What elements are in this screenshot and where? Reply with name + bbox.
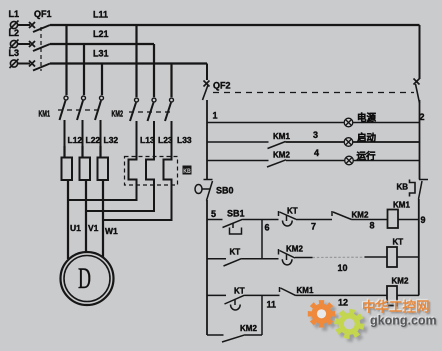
timed contact KT (row5, delay close) <box>279 211 297 226</box>
svg-text:SB1: SB1 <box>227 209 245 219</box>
timed contact KM2 (rowA, with delay hook) <box>279 249 296 265</box>
rowA wire segment b <box>242 258 279 260</box>
rowB wire segment a <box>207 294 226 296</box>
wire into reactor 3 <box>99 146 101 158</box>
svg-text:KT: KT <box>287 207 298 216</box>
svg-text:6: 6 <box>265 223 270 233</box>
contactor KM2 contact 3 <box>165 98 174 157</box>
wire into reactor 2 <box>81 146 83 158</box>
wire into reactor 1 <box>63 146 65 158</box>
contactor KM1 contact 3 <box>95 96 104 146</box>
row2 wire start-lamp <box>207 141 269 143</box>
svg-text:SB0: SB0 <box>216 186 234 196</box>
contact KM1 (rowB, NC) <box>280 287 296 295</box>
lamp HL3 <box>345 156 354 165</box>
rowB wire segment d <box>397 294 419 296</box>
svg-text:L3: L3 <box>9 48 20 58</box>
contactor KM2 contact 2 <box>148 98 157 157</box>
svg-text:KT: KT <box>393 238 404 247</box>
thermal relay KB heater 2 <box>86 157 154 211</box>
svg-text:KB: KB <box>183 168 191 175</box>
row5 wire segment d <box>352 219 388 221</box>
breaker QF1 pole 1 <box>29 22 50 32</box>
svg-text:W1: W1 <box>105 226 118 236</box>
svg-text:KM2: KM2 <box>273 151 290 160</box>
gear green <box>334 309 364 339</box>
contact KM1 (row2, NO) <box>268 142 286 149</box>
row5 wire segment e <box>398 219 420 221</box>
QF2 linkage dashed <box>213 92 414 94</box>
svg-text:L31: L31 <box>93 49 109 59</box>
svg-text:KM2: KM2 <box>352 211 369 220</box>
rowB wire segment c <box>296 294 388 296</box>
coil KM1 <box>388 210 399 229</box>
breaker QF1 pole 2 <box>29 41 50 51</box>
gear shadow green <box>337 312 367 342</box>
node6 vertical wire <box>261 220 263 259</box>
right control rail upper <box>419 100 421 180</box>
contact KT (rowA, NO) <box>224 259 242 266</box>
contact KM2 (row3, NO) <box>267 160 286 167</box>
wire drop L11 to KM2-1 <box>135 25 137 97</box>
svg-text:11: 11 <box>267 300 277 310</box>
left control rail lower <box>206 200 208 335</box>
contactor KM1 contact 1 <box>60 96 69 146</box>
reactor L32 body <box>98 158 109 181</box>
wire drop L21 to KM2-2 <box>153 44 155 97</box>
row5 wire segment b <box>243 219 279 221</box>
terminal L3 <box>10 59 31 68</box>
svg-text:电源: 电源 <box>357 112 377 124</box>
row5 wire segment c <box>296 219 332 221</box>
svg-text:L2: L2 <box>9 28 20 38</box>
rowA wire segment d <box>397 256 418 258</box>
wire reactor3 to motor W1 <box>102 180 104 258</box>
svg-text:10: 10 <box>338 263 348 273</box>
svg-text:L1: L1 <box>9 9 20 19</box>
row3 wire run-lamp <box>207 160 269 162</box>
svg-text:运行: 运行 <box>357 151 377 163</box>
wire L11 <box>50 24 420 26</box>
thermal relay KB heater 1 <box>68 157 137 200</box>
svg-text:KM2: KM2 <box>286 245 303 254</box>
bottom branch wire b <box>245 334 262 336</box>
svg-text:D: D <box>78 263 91 296</box>
svg-text:QF2: QF2 <box>213 81 231 91</box>
KM2 linkage dashed <box>129 111 173 113</box>
svg-text:KB: KB <box>397 183 409 192</box>
svg-text:启动: 启动 <box>357 132 377 144</box>
svg-text:L13: L13 <box>140 135 155 145</box>
node11 vertical wire <box>261 295 263 335</box>
rowB wire segment b <box>245 294 280 296</box>
wire drop L11 to KM1-1 <box>65 25 67 95</box>
wire drop L31 to KM2-3 <box>170 64 172 98</box>
svg-text:3: 3 <box>313 130 318 140</box>
wire L31 to QF2 <box>206 64 208 81</box>
right control rail lower <box>418 199 420 295</box>
svg-text:L33: L33 <box>177 135 192 145</box>
svg-text:中华工控网: 中华工控网 <box>362 299 430 315</box>
svg-text:KM2: KM2 <box>112 110 124 119</box>
svg-text:8: 8 <box>370 221 375 231</box>
QF1 linkage dashed <box>40 27 42 71</box>
svg-text:KM1: KM1 <box>39 110 51 119</box>
svg-text:7: 7 <box>311 222 316 232</box>
left control rail upper <box>206 100 208 180</box>
breaker QF2 left pole <box>203 81 210 101</box>
motor M outer circle <box>61 252 114 305</box>
svg-text:5: 5 <box>211 209 216 219</box>
terminal L2 <box>10 40 31 49</box>
row5 wire segment a <box>207 219 223 221</box>
contactor KM2 contact 1 <box>130 98 139 157</box>
lamp HL2 <box>344 138 353 147</box>
bottom branch wire <box>207 334 224 336</box>
svg-text:L32: L32 <box>104 135 119 145</box>
svg-text:QF1: QF1 <box>34 9 52 19</box>
thermal relay KB heater 3 <box>103 157 172 220</box>
svg-text:gkong.com: gkong.com <box>370 314 437 328</box>
svg-text:L11: L11 <box>93 10 108 20</box>
wire L31 <box>50 62 207 64</box>
wire drop L21 to KM1-2 <box>83 44 85 95</box>
svg-text:V1: V1 <box>88 223 99 233</box>
svg-text:KM2: KM2 <box>240 324 257 333</box>
motor M inner circle <box>64 256 110 302</box>
gear orange <box>308 300 335 327</box>
timed contact KT (rowB, NO with hook) <box>225 295 245 310</box>
thermal relay KB contact (NC on rail) <box>410 180 429 200</box>
rowA wire segment a <box>207 258 226 260</box>
breaker QF2 right pole <box>414 79 420 104</box>
svg-text:9: 9 <box>421 215 426 225</box>
wire L21 <box>50 43 154 45</box>
svg-text:12: 12 <box>338 298 348 308</box>
svg-text:L12: L12 <box>68 135 83 145</box>
svg-text:KM1: KM1 <box>273 132 290 141</box>
contactor KM1 contact 2 <box>77 96 86 146</box>
coil KM2 <box>387 286 397 306</box>
svg-text:KM2: KM2 <box>392 277 409 286</box>
pushbutton SB0 (NC stop) <box>195 180 213 201</box>
KM1 linkage dashed <box>58 109 103 111</box>
svg-text:KT: KT <box>234 287 245 296</box>
wire reactor2 to motor V1 <box>85 180 87 253</box>
watermark group <box>308 299 437 343</box>
wire drop L31 to KM1-3 <box>101 64 103 96</box>
reactor L12 body <box>62 158 73 181</box>
terminal L1 <box>10 21 31 30</box>
label KB (black tag) <box>183 166 192 175</box>
lamp HL1 <box>344 118 353 127</box>
svg-text:KM1: KM1 <box>393 201 410 210</box>
wire L11 to QF2 right (right rail top) <box>419 25 421 79</box>
svg-text:KM1: KM1 <box>297 286 314 295</box>
svg-text:L23: L23 <box>158 135 173 145</box>
svg-text:KT: KT <box>230 248 241 257</box>
reactor L22 body <box>80 158 91 181</box>
breaker QF1 pole 3 <box>29 61 50 71</box>
svg-text:L21: L21 <box>93 29 109 39</box>
row1 wire power-lamp <box>207 122 420 124</box>
svg-text:L22: L22 <box>86 135 101 145</box>
contact KM2 (row5, NC) <box>332 211 352 220</box>
svg-text:1: 1 <box>213 111 218 121</box>
svg-text:4: 4 <box>314 148 319 158</box>
coil KT <box>387 247 397 267</box>
KB dashed enclosure <box>125 157 178 186</box>
rowA wire segment c (solid-faint-solid) <box>295 256 388 259</box>
pushbutton SB1 (NO start) <box>223 219 243 234</box>
contact KM2 (bottom branch, NO) <box>222 335 245 342</box>
wire reactor1 to motor U1 <box>67 180 69 259</box>
gear shadow orange <box>311 303 338 330</box>
svg-text:U1: U1 <box>70 223 81 233</box>
